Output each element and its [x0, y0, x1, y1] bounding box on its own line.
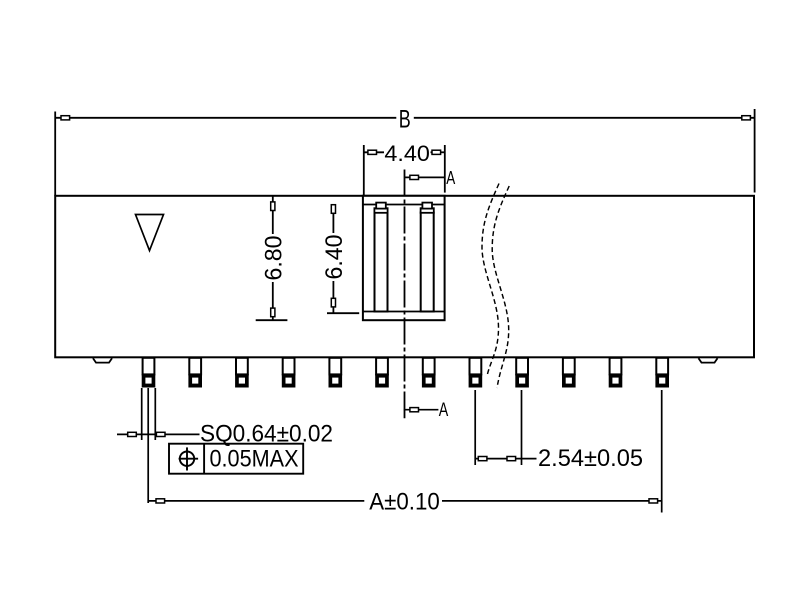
svg-text:A±0.10: A±0.10 — [369, 489, 440, 516]
svg-text:A: A — [439, 399, 449, 421]
svg-text:6.80: 6.80 — [261, 236, 288, 281]
svg-text:0.05MAX: 0.05MAX — [210, 446, 299, 473]
svg-text:A: A — [446, 167, 455, 188]
svg-text:B: B — [399, 105, 411, 133]
svg-text:2.54±0.05: 2.54±0.05 — [538, 445, 643, 472]
svg-text:6.40: 6.40 — [321, 235, 348, 280]
svg-text:4.40: 4.40 — [384, 141, 430, 166]
